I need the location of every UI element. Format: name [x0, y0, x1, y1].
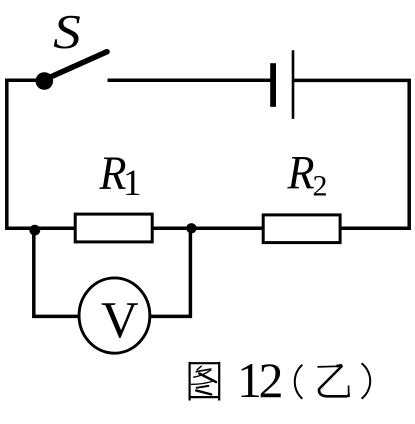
svg-text:V: V	[101, 292, 139, 349]
wire: top-left + left vertical + middle-left to R1	[7, 80, 76, 228]
glyph 图 (drawn strokes)	[189, 362, 221, 401]
wire: voltmeter branch right	[151, 228, 190, 316]
switch S	[36, 52, 108, 90]
svg-text:S: S	[53, 5, 81, 59]
svg-text:12: 12	[237, 352, 282, 408]
wire: voltmeter branch left	[34, 228, 78, 316]
label R2	[287, 146, 328, 202]
wire: middle segment between R1 and R2	[154, 227, 263, 231]
（ fullwidth paren	[295, 365, 303, 399]
battery B1	[270, 50, 294, 119]
wire: battery to right vertical and down to R2	[294, 80, 409, 228]
voltmeter V	[79, 278, 150, 353]
label R1	[99, 146, 142, 204]
resistor R1	[75, 214, 152, 242]
） fullwidth paren	[362, 363, 371, 398]
svg-text:1: 1	[123, 163, 142, 204]
node A (junction left of R1)	[29, 225, 40, 236]
caption: 图 12（乙）	[189, 352, 371, 408]
glyph 乙 (drawn strokes)	[318, 365, 350, 397]
svg-text:2: 2	[313, 170, 328, 203]
wire: top segment from switch to battery	[108, 78, 271, 82]
node B (junction right of R1)	[186, 223, 196, 233]
resistor R2	[263, 215, 340, 243]
svg-text:R: R	[287, 146, 315, 199]
